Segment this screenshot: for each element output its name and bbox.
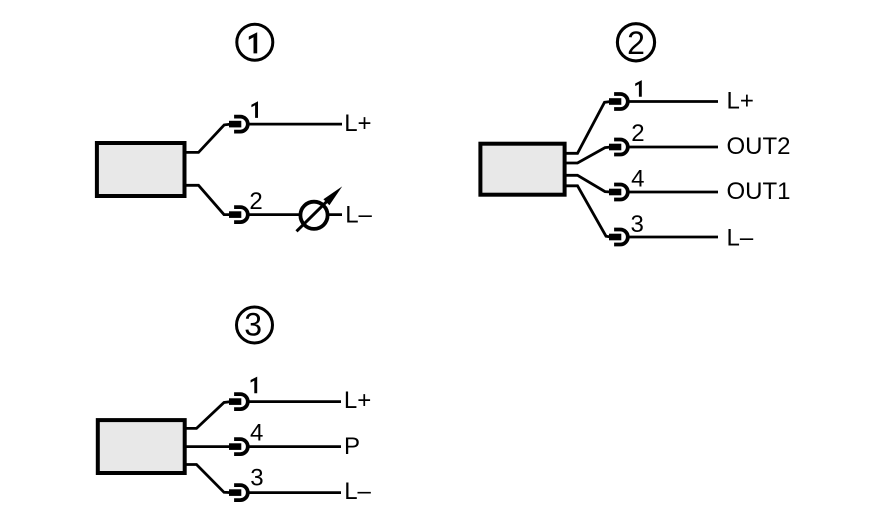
svg-text:3: 3 bbox=[631, 211, 644, 238]
wire pin3 to L- (diagram 2) bbox=[628, 236, 719, 239]
pin contact 1 (diagram 1) bbox=[229, 117, 248, 132]
pin number 1 (diagram 2) bbox=[635, 80, 642, 97]
wire pin4 to P bbox=[248, 445, 342, 448]
wire pin1 to L+ bbox=[248, 123, 343, 126]
svg-text:L–: L– bbox=[727, 225, 754, 252]
svg-text:L+: L+ bbox=[344, 387, 371, 414]
pin contact 2 (diagram 1) bbox=[229, 207, 248, 222]
wire box2 to pin 2 bbox=[565, 147, 612, 163]
pin number 1 (diagram 1) bbox=[251, 101, 258, 118]
device box 2 bbox=[480, 144, 564, 195]
wire box3 to pin 3 bbox=[184, 465, 231, 493]
pin contact 1 (diagram 3) bbox=[229, 394, 248, 409]
pin contact 1 (diagram 2) bbox=[609, 94, 628, 109]
svg-text:4: 4 bbox=[250, 420, 263, 447]
pin contact 3 (diagram 2) bbox=[609, 230, 628, 245]
svg-text:4: 4 bbox=[631, 166, 644, 193]
wire box3 to pin 1 bbox=[184, 402, 231, 429]
wire box2 to pin 1 bbox=[565, 102, 612, 154]
wire pin1 to L+ (diagram 2) bbox=[628, 100, 719, 103]
pin number 1 (diagram 3) bbox=[251, 377, 258, 394]
device box 1 bbox=[97, 143, 185, 196]
svg-text:P: P bbox=[344, 433, 360, 460]
wire pin1 to L+ (diagram 3) bbox=[248, 400, 342, 403]
wire box2 to pin 4 bbox=[565, 175, 612, 192]
wire pin2 to L- bbox=[248, 213, 343, 216]
svg-text:2: 2 bbox=[249, 188, 262, 215]
circled number 3 bbox=[237, 307, 273, 343]
wire pin3 to L- (diagram 3) bbox=[248, 491, 342, 494]
svg-text:2: 2 bbox=[627, 25, 645, 61]
load meter symbol (circle with arrow) bbox=[297, 186, 343, 231]
svg-text:L+: L+ bbox=[344, 110, 371, 137]
wire pin4 to OUT1 bbox=[628, 191, 719, 194]
svg-text:L–: L– bbox=[344, 478, 371, 505]
circled number 1 bbox=[237, 24, 273, 60]
wire box3 to pin 4 bbox=[184, 445, 233, 448]
device box 3 bbox=[98, 420, 185, 473]
svg-text:2: 2 bbox=[631, 120, 644, 147]
wire box2 to pin 3 bbox=[565, 186, 612, 237]
wire pin2 to OUT2 bbox=[628, 146, 719, 149]
pin contact 3 (diagram 3) bbox=[229, 485, 248, 500]
wire box1 to pin 2 bbox=[184, 185, 231, 214]
circled number 2 bbox=[617, 24, 654, 61]
svg-text:3: 3 bbox=[250, 465, 263, 492]
svg-text:3: 3 bbox=[244, 307, 262, 343]
pin contact 2 (diagram 2) bbox=[609, 140, 628, 155]
svg-text:L+: L+ bbox=[727, 88, 754, 115]
pin contact 4 (diagram 3) bbox=[229, 439, 248, 454]
pin contact 4 (diagram 2) bbox=[609, 185, 628, 200]
svg-text:OUT2: OUT2 bbox=[727, 133, 791, 160]
svg-text:OUT1: OUT1 bbox=[727, 178, 791, 205]
svg-text:L–: L– bbox=[345, 201, 372, 228]
wire box1 to pin 1 bbox=[184, 124, 231, 152]
